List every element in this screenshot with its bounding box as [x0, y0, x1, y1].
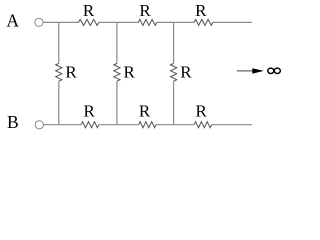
wire shunt branch 1 lower — [58, 81, 60, 125]
svg-text:R: R — [195, 1, 207, 20]
svg-text:R: R — [180, 63, 192, 82]
wire node1 to R2 — [99, 21, 139, 23]
resistor R (shunt 2) — [114, 63, 120, 81]
resistor R (bottom series 3) — [194, 122, 211, 128]
terminal B (open circle) — [35, 121, 43, 129]
resistor R (top series 1) — [79, 19, 99, 25]
wire shunt branch 1 upper — [58, 22, 60, 63]
svg-text:A: A — [6, 11, 19, 31]
svg-text:R: R — [65, 63, 77, 82]
wire shunt branch 3 lower — [173, 81, 175, 125]
resistor R (shunt 3) — [171, 63, 177, 81]
svg-text:R: R — [139, 101, 151, 120]
resistor R (bottom series 2) — [139, 122, 156, 128]
infinity symbol — [268, 68, 281, 73]
terminal A (open circle) — [35, 18, 43, 26]
arrow (continues to infinity) shaft — [237, 70, 254, 72]
svg-text:R: R — [139, 1, 151, 20]
svg-text:B: B — [7, 112, 19, 132]
resistor R (bottom series 1) — [81, 122, 99, 128]
svg-text:R: R — [83, 1, 95, 20]
wire shunt branch 3 upper — [173, 22, 175, 63]
resistor R (shunt 1) — [56, 63, 62, 81]
svg-text:R: R — [196, 101, 208, 120]
resistor R (top series 3) — [194, 19, 213, 25]
wire shunt branch 2 lower — [116, 81, 118, 125]
wire top rail to infinity — [213, 21, 252, 23]
wire A to R1 — [43, 21, 79, 23]
wire node1b to R5 — [99, 124, 139, 126]
svg-text:R: R — [124, 63, 136, 82]
arrow head — [252, 68, 263, 73]
svg-text:R: R — [84, 101, 96, 120]
wire node2 to R3 — [157, 21, 194, 23]
wire shunt branch 2 upper — [116, 22, 118, 63]
wire B to R4 — [43, 124, 81, 126]
wire bottom rail to infinity — [212, 124, 252, 126]
wire node2b to R6 — [156, 124, 194, 126]
resistor R (top series 2) — [138, 19, 156, 25]
